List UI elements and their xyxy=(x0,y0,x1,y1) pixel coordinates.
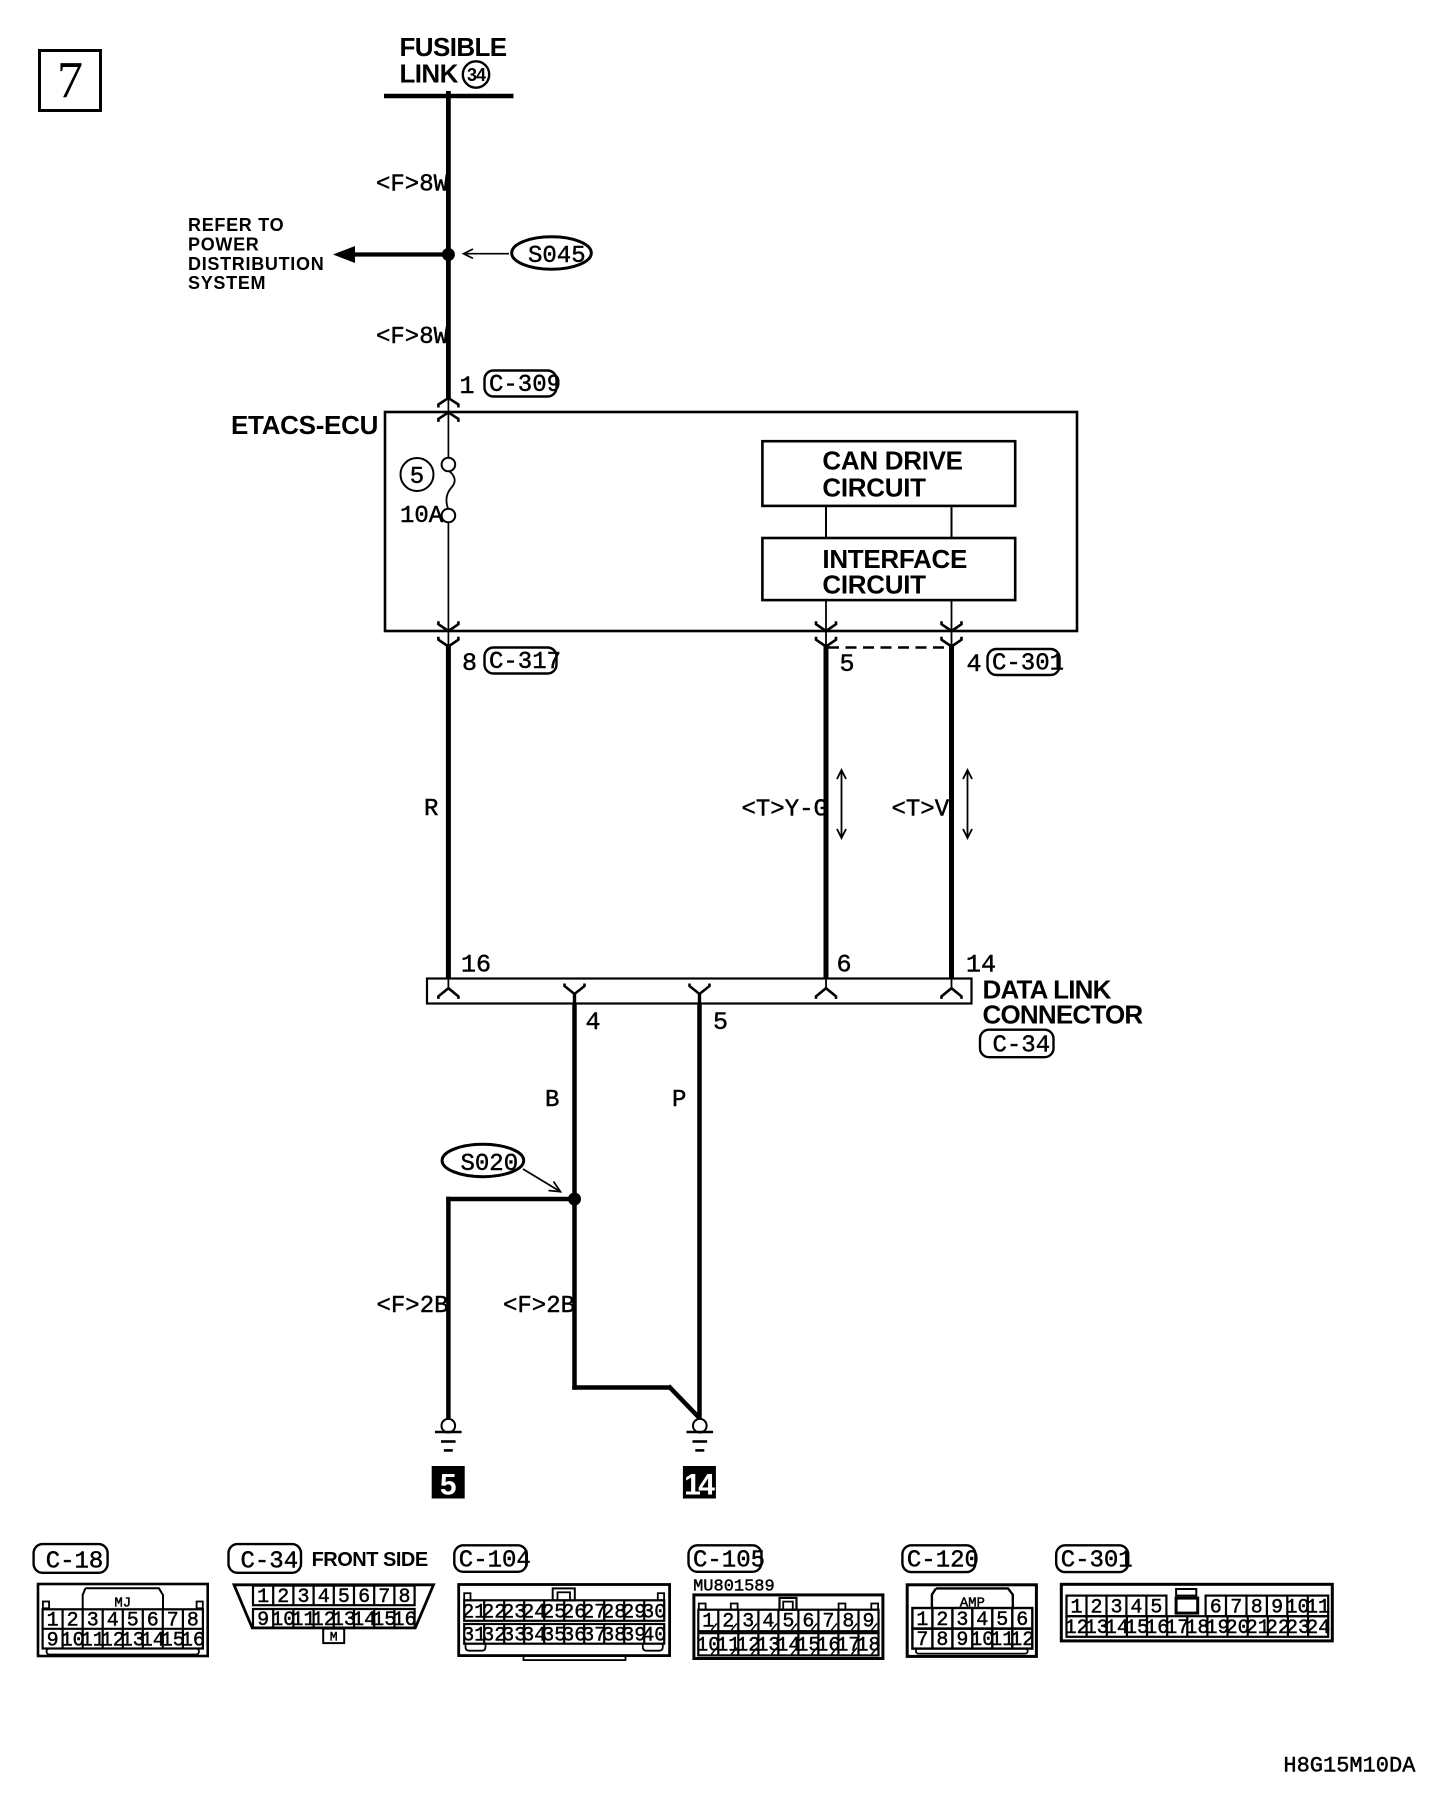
svg-text:C-301: C-301 xyxy=(1061,1548,1133,1575)
connector C-104 label xyxy=(454,1545,531,1574)
svg-text:3: 3 xyxy=(297,1586,309,1609)
svg-text:<F>2B: <F>2B xyxy=(377,1293,449,1320)
svg-text:9: 9 xyxy=(862,1611,874,1634)
refer to power distribution system text xyxy=(188,215,324,293)
svg-text:<F>8W: <F>8W xyxy=(376,172,449,199)
connector crossing chevrons at pin 1 xyxy=(438,398,458,422)
svg-text:POWER: POWER xyxy=(188,234,260,254)
ground number 5 xyxy=(432,1466,465,1502)
wire: CAN to INTERFACE left xyxy=(825,506,827,538)
svg-text:6: 6 xyxy=(837,951,852,980)
svg-text:2: 2 xyxy=(1090,1596,1102,1619)
svg-text:10A: 10A xyxy=(400,503,444,530)
connector crossing chevrons at pin 4 xyxy=(942,621,962,646)
svg-text:14: 14 xyxy=(684,1469,715,1502)
connector C-18 pinout xyxy=(38,1584,208,1656)
svg-text:7: 7 xyxy=(822,1611,834,1634)
connector C-18 label xyxy=(34,1544,108,1575)
svg-text:18: 18 xyxy=(856,1635,880,1658)
svg-text:16: 16 xyxy=(461,951,491,980)
connector C-301 label xyxy=(988,649,1065,678)
fusible link label xyxy=(400,32,507,89)
svg-text:C-34: C-34 xyxy=(241,1548,299,1575)
svg-text:M: M xyxy=(330,1630,338,1645)
connector C-34 label xyxy=(980,1030,1054,1060)
svg-text:<T>V: <T>V xyxy=(892,797,950,824)
connector C-309 xyxy=(485,371,562,400)
svg-text:S020: S020 xyxy=(461,1151,519,1178)
svg-text:5: 5 xyxy=(840,650,855,679)
chevron pin 4 xyxy=(565,984,585,1004)
twisted pair double arrow right xyxy=(963,770,972,838)
wire Y-G xyxy=(824,647,829,979)
svg-text:5: 5 xyxy=(1150,1596,1162,1619)
connector C-104 pinout xyxy=(459,1585,670,1661)
connector C-34 label xyxy=(229,1544,302,1575)
svg-text:CIRCUIT: CIRCUIT xyxy=(822,473,926,503)
ground left xyxy=(435,1419,462,1451)
S045 pointer arrow xyxy=(464,249,510,258)
svg-text:4: 4 xyxy=(1130,1596,1142,1619)
svg-text:34: 34 xyxy=(467,65,486,85)
svg-text:2: 2 xyxy=(277,1586,289,1609)
page number box 7 xyxy=(40,51,101,111)
svg-text:DISTRIBUTION: DISTRIBUTION xyxy=(188,254,324,274)
svg-text:5: 5 xyxy=(338,1586,350,1609)
svg-text:R: R xyxy=(424,796,438,823)
svg-text:1: 1 xyxy=(460,372,475,401)
ground number 14 xyxy=(683,1466,716,1502)
connector C-301 label xyxy=(1056,1545,1133,1574)
svg-text:C-34: C-34 xyxy=(993,1033,1051,1060)
svg-text:4: 4 xyxy=(967,650,982,679)
svg-text:C-105: C-105 xyxy=(693,1547,765,1574)
connector C-120 label xyxy=(902,1545,979,1574)
svg-text:SYSTEM: SYSTEM xyxy=(188,273,266,293)
svg-text:5: 5 xyxy=(782,1611,794,1634)
svg-text:9: 9 xyxy=(257,1609,269,1632)
fuse number circle 5 xyxy=(401,458,434,491)
svg-text:9: 9 xyxy=(1271,1596,1283,1619)
wire: B branch bottom horizontal xyxy=(572,1385,670,1390)
svg-text:7: 7 xyxy=(57,52,83,109)
svg-text:30: 30 xyxy=(642,1601,666,1624)
fuse symbol xyxy=(442,458,456,523)
splice S020 oval xyxy=(442,1144,524,1178)
svg-text:LINK: LINK xyxy=(400,58,459,88)
svg-text:CAN DRIVE: CAN DRIVE xyxy=(822,446,962,476)
svg-text:8: 8 xyxy=(1251,1596,1263,1619)
svg-text:<F>8W: <F>8W xyxy=(376,324,449,351)
INTERFACE CIRCUIT box xyxy=(762,538,1015,600)
svg-text:1: 1 xyxy=(257,1586,269,1609)
fusible link number circle 34 xyxy=(463,61,489,87)
wire: fusible link to pin 1 C-309 xyxy=(446,91,451,398)
svg-text:P: P xyxy=(672,1087,686,1114)
arrow to power distribution system xyxy=(333,246,448,263)
svg-text:16: 16 xyxy=(392,1609,416,1632)
svg-text:C-18: C-18 xyxy=(46,1548,104,1575)
svg-text:3: 3 xyxy=(742,1611,754,1634)
wire: INTERFACE to ECU edge right xyxy=(951,600,953,646)
wire: thin inside ECU to fuse xyxy=(447,398,449,458)
svg-text:3: 3 xyxy=(1110,1596,1122,1619)
ETACS-ECU box xyxy=(385,412,1077,631)
svg-text:S045: S045 xyxy=(528,243,586,270)
connector C-317 xyxy=(485,648,562,677)
wire B xyxy=(572,1004,577,1390)
svg-text:B: B xyxy=(545,1087,559,1114)
svg-text:1: 1 xyxy=(702,1611,714,1634)
svg-text:7: 7 xyxy=(1230,1596,1242,1619)
chevron pin 16 xyxy=(438,979,458,999)
svg-text:5: 5 xyxy=(440,1469,457,1502)
svg-text:4: 4 xyxy=(762,1611,774,1634)
svg-text:C-309: C-309 xyxy=(489,372,561,399)
svg-text:CIRCUIT: CIRCUIT xyxy=(822,570,926,600)
splice S045 oval xyxy=(512,237,592,270)
connector C-120 pinout xyxy=(907,1585,1036,1657)
svg-text:8: 8 xyxy=(462,649,477,678)
wire R xyxy=(446,647,451,979)
svg-text:CONNECTOR: CONNECTOR xyxy=(983,999,1144,1029)
svg-text:7: 7 xyxy=(378,1586,390,1609)
fusible link bar xyxy=(384,94,514,99)
svg-text:5: 5 xyxy=(410,464,424,491)
svg-text:5: 5 xyxy=(713,1008,728,1037)
dashed twisted-pair line xyxy=(828,646,952,649)
svg-text:24: 24 xyxy=(1306,1617,1330,1640)
wire: thin below fuse xyxy=(447,522,449,646)
DATA LINK CONNECTOR label xyxy=(983,975,1144,1030)
wire P xyxy=(697,1004,702,1420)
svg-text:6: 6 xyxy=(802,1611,814,1634)
svg-text:11: 11 xyxy=(1306,1596,1330,1619)
connector C-105 pinout xyxy=(694,1595,883,1659)
wire: S020 horizontal branch xyxy=(446,1197,574,1202)
svg-text:4: 4 xyxy=(586,1008,601,1037)
node: S045 splice junction dot xyxy=(442,248,455,261)
svg-text:<F>2B: <F>2B xyxy=(503,1293,575,1320)
node: S020 junction dot xyxy=(568,1193,581,1206)
wire: INTERFACE to ECU edge left xyxy=(825,600,827,646)
svg-text:6: 6 xyxy=(358,1586,370,1609)
svg-text:H8G15M10DA: H8G15M10DA xyxy=(1283,1754,1416,1779)
svg-text:8: 8 xyxy=(398,1586,410,1609)
svg-text:<T>Y-G: <T>Y-G xyxy=(742,797,828,824)
svg-text:2: 2 xyxy=(722,1611,734,1634)
connector crossing chevrons at pin 8 xyxy=(438,621,458,646)
svg-text:8: 8 xyxy=(842,1611,854,1634)
svg-text:REFER TO: REFER TO xyxy=(188,215,284,235)
svg-text:ETACS-ECU: ETACS-ECU xyxy=(231,410,378,440)
svg-text:C-301: C-301 xyxy=(992,651,1064,678)
svg-text:6: 6 xyxy=(1210,1596,1222,1619)
chevron pin 6 xyxy=(816,979,836,999)
wire V xyxy=(949,647,954,979)
svg-text:FRONT SIDE: FRONT SIDE xyxy=(312,1549,428,1571)
connector C-105 label xyxy=(689,1545,766,1574)
svg-text:FUSIBLE: FUSIBLE xyxy=(400,32,507,62)
wire: left ground drop xyxy=(446,1197,451,1419)
svg-text:C-104: C-104 xyxy=(459,1547,531,1574)
svg-text:4: 4 xyxy=(318,1586,330,1609)
connector C-301 pinout xyxy=(1061,1584,1332,1641)
twisted pair double arrow left xyxy=(837,770,846,838)
connector C-34 pinout xyxy=(234,1585,434,1645)
connector crossing chevrons at pin 5 xyxy=(816,621,836,646)
chevron pin 5 xyxy=(690,984,710,1004)
ground right xyxy=(687,1419,714,1451)
DATA LINK CONNECTOR box xyxy=(427,979,972,1004)
svg-text:C-317: C-317 xyxy=(489,649,561,676)
svg-text:1: 1 xyxy=(1070,1596,1082,1619)
CAN DRIVE CIRCUIT box xyxy=(762,441,1015,506)
chevron pin 14 xyxy=(942,979,962,999)
wire: CAN to INTERFACE right xyxy=(951,506,953,538)
S020 pointer arrow xyxy=(523,1169,561,1192)
svg-text:C-120: C-120 xyxy=(907,1548,979,1575)
wire: B branch diagonal to ground xyxy=(669,1386,699,1417)
